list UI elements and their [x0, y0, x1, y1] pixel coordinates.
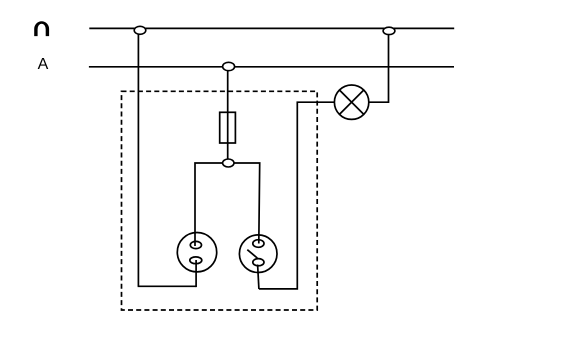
wire: junction to S1 top contact — [195, 163, 228, 246]
wire: riser up into switch S1 bottom contact — [195, 260, 197, 287]
node: tap on phase line (left) — [134, 26, 146, 34]
dashed enclosure box — [122, 91, 318, 310]
svg-text:A: A — [38, 56, 49, 73]
wire: phase bus line (top) — [89, 27, 454, 29]
switch S2 lever — [247, 250, 257, 258]
wire: left vertical drop from phase node — [137, 31, 139, 287]
switch S2 (right) body — [239, 235, 277, 273]
wire: from S2 bottom contact down — [258, 265, 259, 289]
wire: A bus line (bottom) — [89, 66, 454, 68]
switch S1 (left) body — [177, 233, 216, 272]
node: tap on phase line (right) — [383, 27, 395, 34]
switch S2 top contact — [253, 240, 264, 248]
label: phase line Ω (horseshoe glyph) — [34, 21, 49, 36]
lamp E1 body — [334, 85, 368, 119]
switch S1 top contact — [190, 241, 201, 248]
node: tap on A line — [223, 62, 235, 70]
lamp E1 cross stroke 2 — [339, 90, 364, 115]
wire: from A-line node down through fuse — [227, 67, 229, 160]
node: junction below fuse — [223, 159, 234, 167]
switch S1 bottom contact — [190, 257, 202, 264]
wire: bottom-left horizontal run — [138, 285, 197, 287]
wire: bottom-right run up to lamp — [259, 102, 334, 289]
wire: lamp to right phase node — [369, 31, 389, 102]
lamp E1 cross stroke 1 — [339, 90, 364, 115]
wire: junction to S2 top contact — [228, 163, 259, 244]
switch S2 bottom contact — [253, 259, 264, 266]
fuse F1 — [220, 112, 236, 143]
